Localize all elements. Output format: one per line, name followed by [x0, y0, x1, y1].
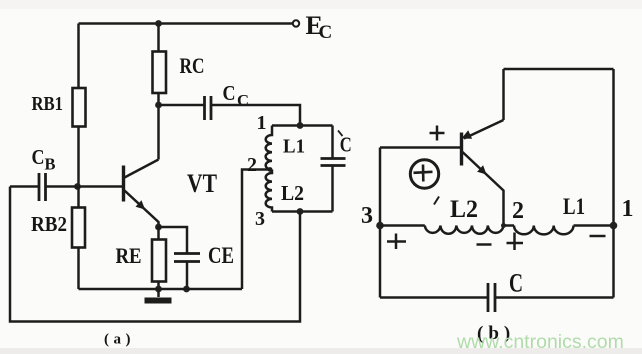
label pin 2 (b)	[512, 198, 524, 224]
wire collector to RC	[157, 105, 160, 160]
svg-text:RE: RE	[116, 243, 142, 268]
wire RB2 to ground rail	[77, 248, 80, 290]
current tick near L2 (b)	[434, 197, 439, 205]
capacitor C (a) bottom lead	[331, 166, 334, 212]
inductor L1 (b)	[514, 226, 574, 235]
wire left side (b)	[379, 148, 382, 298]
svg-text:C: C	[509, 269, 523, 298]
svg-text:2: 2	[247, 154, 257, 176]
wire RC bottom	[157, 93, 160, 105]
source circled plus (b)	[410, 160, 438, 188]
svg-text:(a): (a)	[104, 332, 135, 348]
capacitor CE	[174, 254, 200, 262]
plus polarity mid (b)	[507, 233, 524, 251]
svg-text:C: C	[32, 145, 45, 169]
svg-text:L1: L1	[563, 194, 585, 219]
svg-text:L2: L2	[450, 196, 478, 223]
svg-text:L2: L2	[281, 181, 304, 205]
label C (b)	[509, 269, 523, 298]
svg-text:C: C	[319, 22, 333, 43]
wire top rail to RB1	[77, 24, 80, 89]
capacitor C (a)	[321, 159, 346, 166]
junction CE bottom	[183, 286, 190, 293]
junction RE bottom	[155, 286, 162, 293]
label (b)	[477, 323, 515, 344]
label C (a)	[338, 131, 352, 157]
wire bottom right (b)	[495, 296, 614, 299]
resistor RE	[152, 240, 166, 282]
wire CE bottom	[186, 262, 189, 290]
svg-text:RB1: RB1	[32, 93, 64, 115]
wire CB to base node	[46, 185, 78, 188]
junction emitter node	[155, 224, 162, 231]
svg-text:3: 3	[361, 203, 373, 229]
label RB2	[31, 212, 67, 236]
label L2 (b)	[450, 196, 478, 223]
wire collector lead (b)	[502, 69, 505, 120]
label RE	[116, 243, 142, 268]
wire base node to VT base	[78, 185, 123, 188]
wire tank bottom	[272, 210, 333, 213]
svg-text:C: C	[223, 81, 236, 105]
wire main right segment (b)	[574, 224, 614, 227]
minus polarity right (b)	[590, 235, 606, 238]
label RB1	[32, 93, 64, 115]
wire main left segment (b)	[380, 224, 425, 227]
ground	[145, 289, 172, 301]
svg-text:RB2: RB2	[31, 212, 67, 236]
wire between L2 and L1 (b)	[504, 224, 515, 227]
label EC	[306, 11, 333, 43]
junction collector node	[155, 102, 162, 109]
svg-text:2: 2	[512, 198, 524, 224]
label VT	[187, 169, 217, 198]
wire CC to tank top	[211, 105, 300, 126]
minus polarity mid-left (b)	[477, 243, 492, 246]
wire RB1 to base node	[77, 127, 80, 187]
transistor VT	[124, 160, 159, 228]
wire base node to RB2	[77, 187, 80, 208]
svg-text:L1: L1	[283, 137, 305, 158]
wire emitter to CE	[159, 227, 188, 254]
label L1 (b)	[563, 194, 585, 219]
capacitor CB	[39, 173, 46, 201]
junction tank top	[297, 122, 304, 129]
svg-text:CE: CE	[208, 243, 234, 268]
svg-text:VT: VT	[187, 169, 217, 198]
wire top supply rail (a)	[79, 22, 293, 25]
wire top rail (b)	[504, 68, 614, 71]
terminal EC	[293, 20, 299, 26]
svg-text:1: 1	[257, 112, 267, 134]
svg-text:RC: RC	[180, 53, 205, 78]
label CE	[208, 243, 234, 268]
wire left loop to CB	[10, 185, 39, 188]
plus polarity at base (b)	[430, 126, 445, 141]
inductor L2 (b)	[425, 226, 504, 234]
junction terminal 1 (b)	[610, 222, 618, 230]
wire bottom left (b)	[380, 296, 488, 299]
svg-text:B: B	[45, 155, 56, 174]
wire RE bottom	[157, 282, 160, 290]
label pin 1 (a)	[257, 112, 267, 134]
label CB	[32, 145, 56, 174]
svg-text:www.cntronics.com: www.cntronics.com	[456, 331, 624, 353]
capacitor C (a) top lead	[331, 126, 334, 159]
capacitor C (b)	[488, 283, 495, 312]
watermark	[456, 331, 624, 353]
label pin 2 (a)	[247, 154, 257, 176]
junction base node	[74, 183, 81, 190]
wire right side (b)	[612, 69, 615, 298]
wire feedback loop (tank 3 to CB)	[10, 187, 300, 322]
capacitor CC	[205, 96, 212, 120]
wire collector node to CC	[159, 104, 205, 107]
inductor L1 (a)	[266, 126, 272, 170]
label pin 3 (b)	[361, 203, 373, 229]
label L2 (a)	[281, 181, 304, 205]
wire tank top	[272, 124, 333, 127]
wire emitter to RE	[157, 227, 160, 240]
wire tap 2 to ground rail	[242, 167, 272, 289]
label pin 3 (a)	[255, 208, 265, 230]
junction terminal 2 (b)	[501, 223, 506, 228]
label L1 (a)	[283, 137, 305, 158]
label CC	[223, 81, 250, 110]
wire emitter ground rail	[79, 288, 243, 291]
resistor RB1	[73, 88, 86, 127]
junction terminal 3 (b)	[376, 222, 384, 230]
svg-text:C: C	[237, 93, 249, 110]
junction tank bottom	[297, 208, 304, 215]
svg-text:1: 1	[622, 196, 634, 222]
wire RC top	[157, 24, 160, 52]
junction top rail / RC	[155, 20, 162, 27]
inductor L2 (a)	[266, 170, 272, 212]
transistor (b)	[462, 120, 504, 226]
svg-text:3: 3	[255, 208, 265, 230]
plus polarity left (b)	[387, 234, 406, 250]
wire base lead (b)	[380, 146, 460, 149]
label (a)	[104, 332, 135, 348]
label pin 1 (b)	[622, 196, 634, 222]
resistor RB2	[72, 208, 85, 248]
resistor RC	[153, 52, 167, 94]
label RC	[180, 53, 205, 78]
